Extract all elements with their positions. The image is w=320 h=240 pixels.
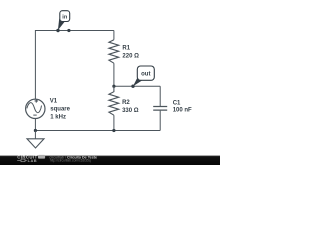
flag out anchor dot [131, 85, 134, 88]
wire: top rail from V1 top-left corner to R1 column [35, 31, 114, 100]
V1 waveform squiggle [27, 103, 42, 113]
wire: R1 top stub [113, 31, 115, 40]
svg-text:V1: V1 [50, 98, 58, 104]
wire: R1 bottom to middle rail [113, 63, 115, 86]
ground stub [34, 131, 36, 139]
svg-text:in: in [62, 14, 68, 20]
junction dot bottom rail at R2 [112, 129, 115, 132]
voltage source V1 [26, 99, 45, 118]
flag out box [137, 66, 154, 80]
wire: C1 bottom stub [159, 111, 161, 131]
svg-text:http://circuitlab.com/c6zt35q: http://circuitlab.com/c6zt35q [50, 159, 91, 163]
wire: C1 top stub [159, 86, 161, 106]
junction dot bottom rail at ground [34, 129, 37, 132]
V1 plus sign [35, 99, 38, 102]
svg-text:LAB: LAB [28, 158, 37, 163]
wire: V1 bottom to bottom rail [34, 119, 36, 131]
flag in pointer [58, 19, 65, 31]
wire: R2 bottom to bottom rail [113, 115, 115, 130]
svg-text:100 nF: 100 nF [173, 108, 192, 114]
wire: bottom rail [35, 130, 160, 132]
flag out pointer [133, 77, 142, 86]
logo resistor box [21, 159, 25, 162]
svg-text:C1: C1 [173, 101, 181, 107]
capacitor C1 [153, 107, 167, 111]
junction dot node out at R divider [112, 85, 115, 88]
svg-text:R2: R2 [122, 100, 130, 106]
resistor R1 [109, 40, 119, 64]
resistor R2 [109, 86, 119, 115]
svg-text:out: out [141, 71, 150, 77]
svg-text:R1: R1 [122, 46, 130, 52]
svg-text:square: square [50, 106, 70, 112]
flag in box [60, 11, 70, 22]
wire endpoint dot top rail [67, 29, 70, 32]
wire: middle rail (node out) [114, 85, 160, 87]
logo chip block [38, 155, 45, 159]
svg-text:330 Ω: 330 Ω [122, 108, 139, 114]
logo schematic line [17, 159, 27, 161]
flag in anchor dot [56, 29, 59, 32]
svg-text:220 Ω: 220 Ω [122, 54, 139, 60]
V1 minus sign [33, 114, 36, 116]
svg-text:1 kHz: 1 kHz [50, 114, 66, 120]
ground [27, 139, 44, 148]
